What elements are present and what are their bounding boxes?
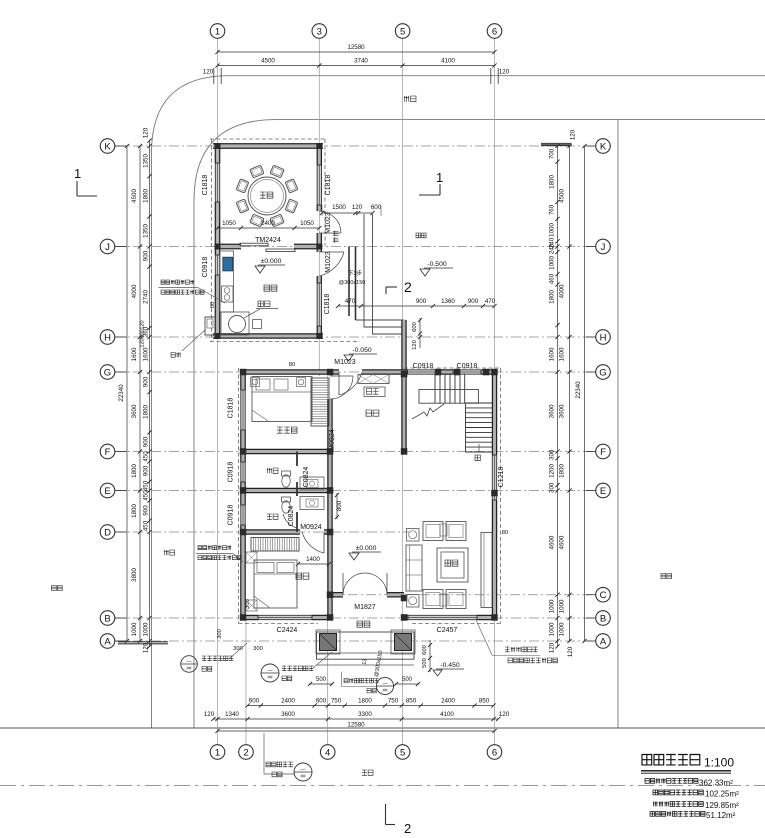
- stair west wall axis5: [402, 372, 405, 452]
- wall C porch north: [330, 593, 343, 596]
- bedroom closet hatched: [251, 538, 299, 552]
- bath door arc: [283, 514, 297, 528]
- backyard small dims 600 120: [419, 318, 421, 348]
- svg-text:1360: 1360: [441, 298, 455, 305]
- svg-text:3800: 3800: [131, 568, 138, 582]
- svg-text:@300x150: @300x150: [339, 280, 366, 286]
- svg-text:4500: 4500: [261, 58, 275, 65]
- svg-text:1000: 1000: [549, 599, 556, 613]
- svg-text:900: 900: [143, 505, 150, 516]
- svg-text:80: 80: [502, 530, 508, 536]
- svg-text:1: 1: [215, 747, 220, 758]
- svg-text:1600: 1600: [131, 347, 138, 361]
- svg-text:—: —: [187, 659, 192, 665]
- svg-text:1000: 1000: [143, 622, 150, 636]
- svg-text:M1023: M1023: [325, 212, 332, 234]
- axis line 5: [402, 39, 404, 745]
- svg-text:850: 850: [479, 698, 490, 705]
- right axis bubbles: [596, 139, 611, 154]
- stair flight 1 risers: [434, 374, 436, 403]
- house west wall axis2: [241, 372, 244, 390]
- window C0824 labels: [303, 467, 310, 488]
- main columns: [240, 369, 247, 376]
- svg-text:G: G: [104, 367, 111, 378]
- toilet master bath: [282, 475, 290, 487]
- svg-text:129.85m²: 129.85m²: [705, 801, 739, 810]
- title yiceng pingmiantu: [642, 755, 700, 765]
- axis line 2: [245, 615, 247, 745]
- interior wall F: [243, 450, 332, 453]
- earth stove platform: [221, 312, 249, 335]
- svg-text:2: 2: [404, 279, 412, 295]
- svg-text:1800: 1800: [131, 464, 138, 478]
- dashed overhang above G east part: [404, 367, 501, 369]
- svg-text:2400: 2400: [441, 698, 455, 705]
- door M0924 elder room: [330, 375, 353, 377]
- label cunlu bottom: [362, 770, 373, 775]
- svg-text:850: 850: [406, 698, 417, 705]
- interior wall D bedroom north: [243, 530, 300, 533]
- bedroom nightstands: [246, 552, 257, 563]
- svg-text:1: 1: [215, 26, 220, 37]
- svg-text:K: K: [600, 141, 607, 152]
- svg-text:4000: 4000: [131, 284, 138, 298]
- svg-text:1600: 1600: [143, 347, 150, 361]
- svg-text:5: 5: [400, 747, 405, 758]
- svg-text:—: —: [301, 767, 306, 773]
- svg-text:120: 120: [143, 127, 150, 138]
- svg-text:1000: 1000: [549, 256, 556, 270]
- svg-text:C0824: C0824: [288, 506, 295, 527]
- svg-text:1000: 1000: [549, 622, 556, 636]
- label dining room: [260, 192, 273, 198]
- corridor walls: [348, 247, 350, 317]
- svg-text:1000: 1000: [549, 223, 556, 237]
- svg-text:362.33m²: 362.33m²: [699, 779, 733, 788]
- window C0918 west upper: [241, 462, 245, 482]
- svg-text:51.12m²: 51.12m²: [706, 811, 736, 820]
- svg-text:12580: 12580: [347, 722, 365, 729]
- bubble column1 note left: [202, 656, 233, 661]
- elder bed corner posts: [251, 378, 260, 387]
- kitchen counter: [220, 251, 234, 312]
- double door M1827: [342, 573, 344, 595]
- label shrine hall: [366, 410, 379, 416]
- vertical dim 600 500 porch: [429, 640, 431, 672]
- svg-text:C1818: C1818: [228, 398, 235, 419]
- annex roof overhang dashed top: [210, 138, 326, 140]
- living TV cabinet: [481, 533, 492, 608]
- svg-text:750: 750: [331, 698, 342, 705]
- kitchen stove: [222, 286, 234, 302]
- svg-text:-0.450: -0.450: [440, 662, 459, 669]
- svg-text:1050: 1050: [300, 220, 314, 227]
- porch slab outline: [317, 632, 415, 659]
- basin counter lower: [300, 497, 324, 510]
- svg-text:500: 500: [422, 658, 428, 668]
- svg-text:500: 500: [402, 677, 413, 683]
- svg-text:600: 600: [316, 698, 327, 705]
- bottom dim fine row: [248, 705, 494, 707]
- right neighbour boundary: [617, 120, 619, 728]
- dining corner columns: [215, 143, 221, 149]
- svg-text:80: 80: [289, 362, 295, 368]
- porch steps label rotated: [362, 658, 369, 665]
- canopy note right: [505, 647, 538, 652]
- grid row K: [115, 145, 596, 147]
- svg-text:A: A: [600, 636, 607, 647]
- window C1818 kitchen east: [317, 283, 321, 326]
- note line 2: [653, 790, 703, 795]
- svg-text:下3步: 下3步: [348, 270, 363, 277]
- svg-text:900: 900: [143, 376, 150, 387]
- svg-text:1800: 1800: [549, 290, 556, 304]
- sliding door TM2424: [240, 243, 268, 246]
- svg-text:—: —: [268, 668, 273, 674]
- door M1023 kitchen east: [325, 251, 332, 273]
- left dim fine chain: [149, 141, 151, 647]
- svg-text:3600: 3600: [131, 404, 138, 418]
- bubble exterior wall detail bottom: [266, 762, 293, 767]
- backyard wall axis5: [402, 320, 405, 372]
- grid row B: [115, 617, 596, 619]
- living coffee table: [437, 548, 468, 582]
- wall H kitchen south: [213, 334, 323, 337]
- right dim major chain: [569, 146, 571, 641]
- dim 1050 2400 1050: [218, 227, 320, 229]
- svg-text:3300: 3300: [358, 711, 372, 718]
- svg-text:120: 120: [140, 338, 146, 347]
- svg-text:C: C: [600, 590, 607, 601]
- masonry note left lower: [198, 546, 231, 550]
- bubble concrete steps detail: [344, 679, 379, 683]
- svg-text:K: K: [104, 141, 111, 152]
- svg-text:1800: 1800: [358, 698, 372, 705]
- stair up label: [475, 455, 480, 461]
- interior wall E: [243, 489, 332, 492]
- svg-text:4: 4: [325, 747, 330, 758]
- window C0918 west lower: [241, 505, 245, 525]
- window C1818 west: [241, 390, 245, 430]
- svg-text:120: 120: [140, 320, 146, 329]
- svg-text:22340: 22340: [118, 384, 125, 402]
- svg-text:##: ##: [267, 675, 273, 680]
- svg-text:1350: 1350: [143, 154, 150, 168]
- svg-text:C2457: C2457: [437, 627, 458, 634]
- label backyard houyuan: [416, 233, 426, 238]
- svg-text:±0.000: ±0.000: [356, 545, 377, 552]
- svg-text:C0824: C0824: [303, 467, 310, 488]
- svg-text:M0924: M0924: [300, 524, 322, 531]
- svg-text:760: 760: [549, 204, 556, 215]
- annex west wall: [216, 146, 219, 163]
- window C1818 dining west: [215, 163, 219, 202]
- label linju right: [661, 574, 672, 579]
- bedroom bed: [254, 560, 297, 608]
- backyard steps L2: [364, 214, 404, 327]
- svg-text:800: 800: [336, 500, 343, 511]
- svg-text:C0918: C0918: [228, 505, 235, 526]
- svg-text:4000: 4000: [559, 284, 566, 298]
- svg-text:3600: 3600: [559, 404, 566, 418]
- svg-text:450: 450: [143, 480, 150, 491]
- svg-text:120: 120: [204, 711, 215, 718]
- stair break line: [412, 404, 444, 419]
- svg-text:470: 470: [345, 298, 356, 305]
- svg-text:##: ##: [382, 688, 388, 693]
- svg-text:120: 120: [412, 340, 418, 350]
- note line 1: [645, 779, 698, 784]
- label linju left: [52, 586, 63, 591]
- top dim total 12580: [218, 51, 495, 53]
- note line 4: [650, 812, 705, 817]
- svg-text:1: 1: [436, 170, 443, 185]
- note line 3: [653, 802, 703, 807]
- wall B south: [243, 616, 258, 619]
- wall K dining north: [213, 144, 323, 147]
- svg-text:M1023: M1023: [325, 251, 332, 273]
- porch column east: [391, 630, 415, 654]
- svg-text:3740: 3740: [354, 58, 368, 65]
- svg-text:1: 1: [74, 166, 81, 181]
- svg-text:700: 700: [549, 148, 556, 159]
- svg-text:—: —: [383, 681, 388, 687]
- svg-text:120: 120: [570, 129, 577, 140]
- svg-text:C0918: C0918: [202, 257, 209, 278]
- svg-text:1340: 1340: [225, 711, 239, 718]
- label kitchen: [264, 285, 277, 291]
- svg-text:3600: 3600: [549, 404, 556, 418]
- svg-text:900: 900: [416, 298, 427, 305]
- living armchairs bottom: [423, 590, 443, 609]
- annex east wall: [318, 146, 321, 165]
- shrine label box: [364, 387, 385, 397]
- svg-text:C1818: C1818: [324, 294, 331, 315]
- grid row C: [330, 594, 596, 596]
- svg-text:4100: 4100: [441, 58, 455, 65]
- svg-text:1400: 1400: [306, 556, 320, 563]
- bath partition wall: [296, 452, 298, 467]
- svg-text:900: 900: [143, 250, 150, 261]
- svg-text:1800: 1800: [143, 405, 150, 419]
- svg-text:1:100: 1:100: [704, 756, 734, 770]
- svg-text:E: E: [600, 486, 606, 497]
- svg-text:4600: 4600: [549, 535, 556, 549]
- svg-text:600: 600: [422, 645, 428, 655]
- svg-text:600: 600: [249, 698, 260, 705]
- svg-text:750: 750: [388, 698, 399, 705]
- svg-text:-0.500: -0.500: [427, 261, 446, 268]
- svg-text:1800: 1800: [549, 175, 556, 189]
- window C0918 G 1: [408, 370, 437, 374]
- left axis bubbles: [100, 139, 115, 154]
- svg-text:E: E: [104, 486, 110, 497]
- svg-text:C0918: C0918: [228, 462, 235, 483]
- svg-text:300: 300: [253, 646, 263, 652]
- label living room: [445, 560, 458, 566]
- wall J dining-kitchen: [218, 245, 242, 248]
- svg-text:1500: 1500: [332, 204, 346, 211]
- svg-text:900: 900: [143, 465, 150, 476]
- svg-text:470: 470: [485, 298, 496, 305]
- right dim fine chain: [557, 146, 559, 646]
- svg-text:2400: 2400: [261, 220, 275, 227]
- svg-text:2: 2: [243, 747, 248, 758]
- svg-text:300: 300: [549, 449, 556, 460]
- svg-text:1800: 1800: [143, 189, 150, 203]
- window C1818 dining east: [317, 165, 321, 205]
- toilet public bath: [282, 501, 290, 513]
- label xiaolu left: [164, 550, 175, 555]
- svg-text:120: 120: [203, 69, 214, 76]
- top dim segments 4500 3740 4100: [218, 65, 495, 67]
- porch steps dim 500 east: [395, 683, 419, 685]
- living armchairs top: [423, 522, 443, 541]
- axis line 3: [318, 39, 320, 377]
- masonry note left upper: [161, 280, 194, 284]
- svg-text:TM2424: TM2424: [255, 237, 281, 244]
- window C0918 kitchen west: [215, 255, 219, 275]
- svg-text:G: G: [599, 367, 606, 378]
- label public bath: [267, 514, 278, 519]
- svg-text:102.25m²: 102.25m²: [705, 790, 739, 799]
- svg-text:6: 6: [492, 747, 497, 758]
- door M1023 dining east: [325, 212, 332, 234]
- bottom dim total 12580: [218, 730, 495, 732]
- svg-text:C1218: C1218: [498, 467, 505, 488]
- kitchen sink blue: [223, 257, 233, 271]
- stair flight 2 risers: [465, 403, 467, 452]
- village road centerline: [0, 785, 765, 787]
- svg-text:4500: 4500: [131, 189, 138, 203]
- house east wall axis6: [493, 372, 496, 455]
- svg-text:J: J: [105, 242, 110, 253]
- svg-text:2400: 2400: [281, 698, 295, 705]
- svg-text:240: 240: [549, 243, 556, 254]
- label porch menlang: [357, 621, 370, 627]
- svg-text:1600: 1600: [549, 347, 556, 361]
- svg-text:M1023: M1023: [334, 359, 356, 366]
- axis line 6: [494, 39, 496, 745]
- svg-text:J: J: [601, 242, 606, 253]
- svg-text:4500: 4500: [559, 189, 566, 203]
- svg-text:900: 900: [468, 298, 479, 305]
- elder room closet hatched: [311, 378, 329, 426]
- svg-text:B: B: [600, 613, 606, 624]
- svg-text:1600: 1600: [559, 347, 566, 361]
- bubble column2 detail: [282, 666, 313, 671]
- left dim major chain: [139, 146, 141, 641]
- compound wall at A left: [118, 641, 168, 643]
- svg-text:300: 300: [217, 629, 223, 639]
- left dim total 22340: [126, 146, 128, 641]
- svg-text:600: 600: [412, 322, 418, 332]
- svg-text:C0918: C0918: [413, 363, 434, 370]
- window C0918 G 2: [453, 370, 481, 374]
- elder room bed: [252, 377, 312, 422]
- svg-text:450: 450: [143, 451, 150, 462]
- svg-text:C1818: C1818: [325, 175, 332, 196]
- svg-text:900: 900: [143, 436, 150, 447]
- label elder room: [277, 427, 297, 433]
- left 120 600 120 cluster near H: [140, 320, 146, 329]
- living sofa left: [406, 545, 422, 591]
- svg-text:120: 120: [352, 204, 363, 211]
- svg-text:12580: 12580: [347, 44, 365, 51]
- svg-text:F: F: [105, 447, 111, 458]
- svg-text:1800: 1800: [559, 464, 566, 478]
- backyard dim row 470 900 1360 900 470: [338, 305, 495, 307]
- svg-text:450: 450: [143, 520, 150, 531]
- svg-text:5: 5: [400, 26, 405, 37]
- svg-text:##: ##: [300, 774, 306, 779]
- label tuzao with leader: [244, 309, 260, 318]
- bottom axis bubbles 1 2 4 5 6: [210, 745, 225, 760]
- window C1218 east: [492, 455, 496, 500]
- svg-text:2: 2: [404, 821, 411, 836]
- axis line 1: [217, 39, 219, 745]
- svg-text:300: 300: [549, 482, 556, 493]
- site road outer edge: [152, 76, 765, 728]
- corridor label guodao: [333, 231, 339, 243]
- svg-text:1350: 1350: [143, 224, 150, 238]
- svg-text:F: F: [600, 447, 606, 458]
- svg-text:460: 460: [549, 273, 556, 284]
- living corner tables: [407, 529, 420, 542]
- svg-text:120: 120: [499, 69, 510, 76]
- dim 1500 120 600 right of dining: [322, 212, 373, 214]
- svg-text:-0.050: -0.050: [352, 347, 371, 354]
- svg-text:##: ##: [186, 666, 192, 671]
- bottom dim middle row: [213, 718, 498, 720]
- chimney box: [205, 317, 215, 335]
- svg-text:1200: 1200: [549, 464, 556, 478]
- svg-text:600: 600: [371, 204, 382, 211]
- svg-text:B: B: [104, 613, 110, 624]
- svg-text:3600: 3600: [281, 711, 295, 718]
- svg-text:450: 450: [143, 490, 150, 501]
- svg-text:C2424: C2424: [277, 627, 298, 634]
- porch column west: [316, 630, 340, 654]
- grid row G: [115, 371, 596, 373]
- window C2457: [408, 615, 477, 619]
- dim 800: [336, 493, 338, 519]
- svg-text:4600: 4600: [559, 535, 566, 549]
- svg-text:H: H: [104, 332, 111, 343]
- grid row J: [115, 246, 596, 248]
- label xiaolu top: [404, 96, 416, 102]
- top axis bubbles 1 3 5 6: [210, 24, 225, 39]
- site road inner edge: [194, 120, 765, 728]
- svg-text:A: A: [104, 636, 111, 647]
- label bedroom: [296, 573, 309, 579]
- stair handrail: [419, 390, 478, 404]
- backyard steps L1: [356, 319, 405, 321]
- grid row F: [115, 451, 596, 453]
- grid row E: [115, 490, 596, 492]
- svg-text:120: 120: [499, 711, 510, 718]
- svg-text:1000: 1000: [559, 622, 566, 636]
- label master bath: [267, 468, 278, 473]
- svg-text:2740: 2740: [143, 290, 150, 304]
- svg-text:M0924: M0924: [329, 429, 336, 451]
- backyard north wall stub at K right: [541, 144, 572, 146]
- svg-text:±0.000: ±0.000: [261, 258, 282, 265]
- basin counter upper: [300, 477, 324, 490]
- svg-text:80: 80: [210, 302, 216, 308]
- svg-text:1800: 1800: [131, 504, 138, 518]
- svg-text:4100: 4100: [440, 711, 454, 718]
